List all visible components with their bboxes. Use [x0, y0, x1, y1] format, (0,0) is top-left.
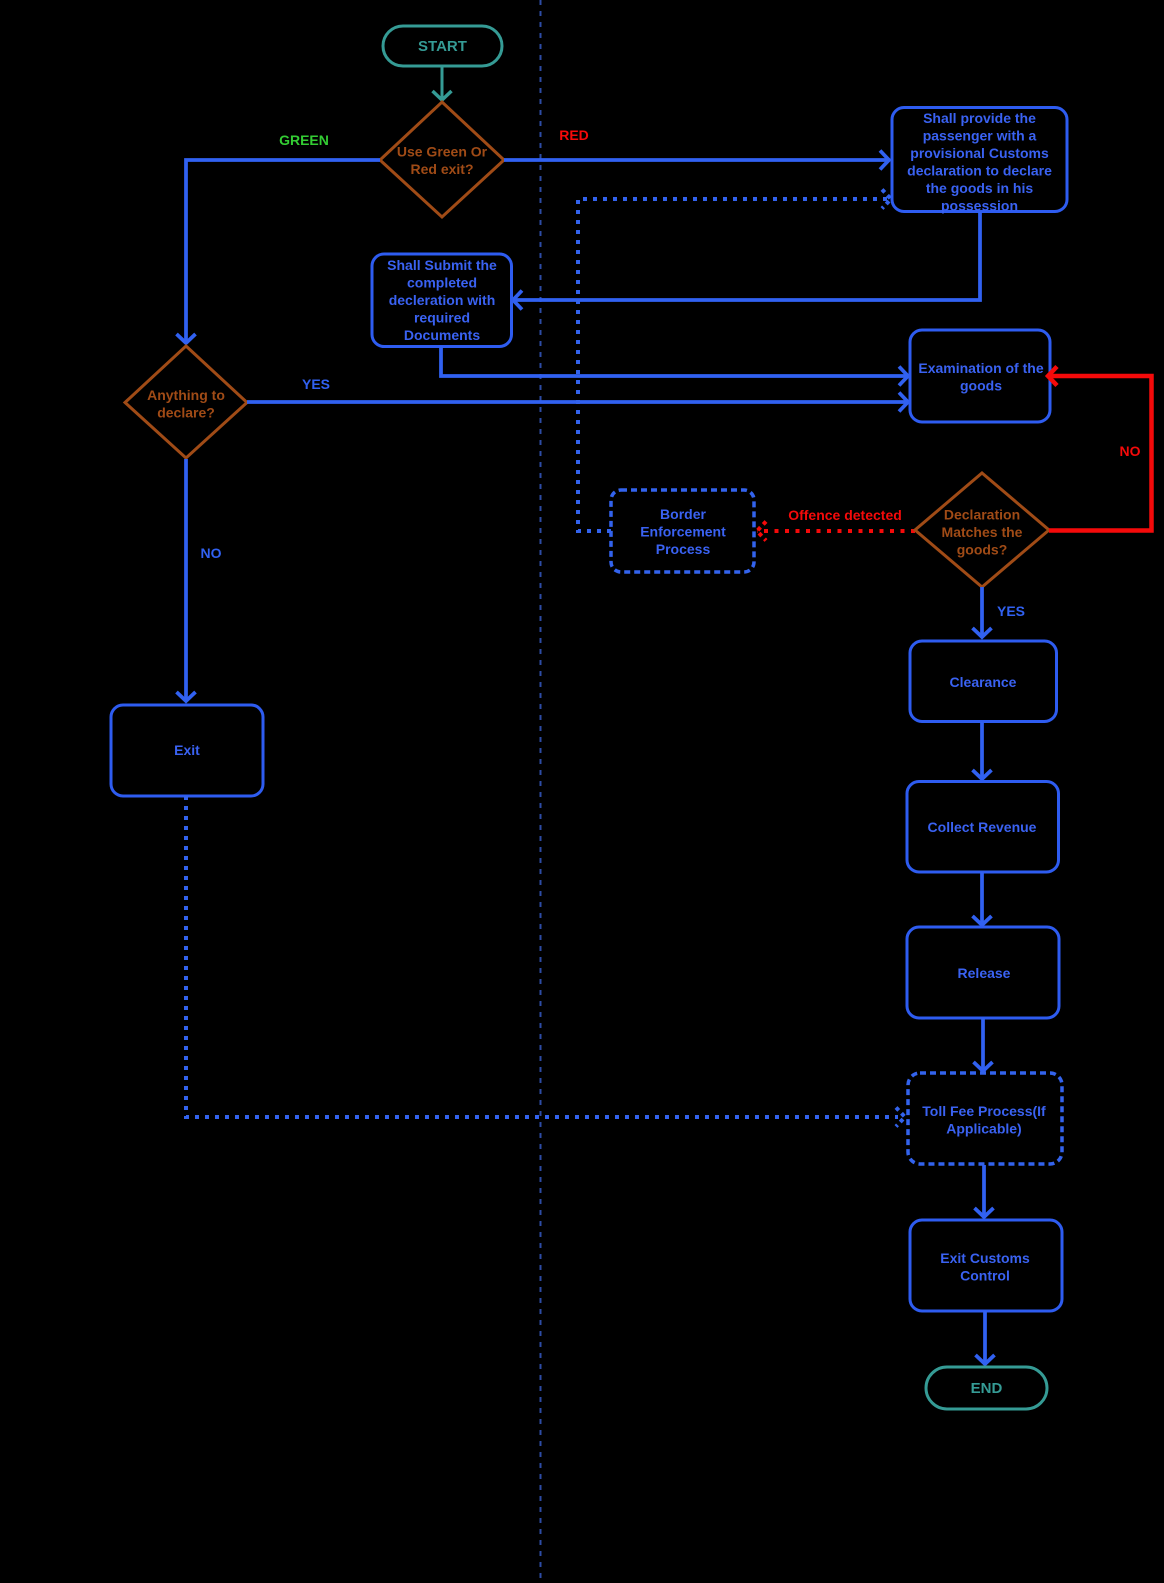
svg-text:Exit: Exit: [174, 742, 200, 758]
svg-text:Exit Customs: Exit Customs: [940, 1250, 1030, 1266]
svg-text:Shall provide the: Shall provide the: [923, 110, 1036, 126]
wire submit box to examination box: [441, 346, 908, 386]
wire Clearance to Collect Revenue: [973, 722, 992, 779]
svg-text:Matches the: Matches the: [942, 524, 1023, 540]
svg-text:NO: NO: [201, 545, 222, 561]
svg-text:required: required: [414, 310, 470, 326]
svg-text:Toll Fee Process(If: Toll Fee Process(If: [922, 1103, 1046, 1119]
svg-text:Shall Submit the: Shall Submit the: [387, 257, 497, 273]
decision D2 Anything to declare?: [125, 346, 247, 458]
process box: Exit Customs Control: [910, 1220, 1062, 1311]
decision D1 Use Green Or Red exit?: [380, 102, 504, 217]
svg-text:Offence detected: Offence detected: [788, 507, 902, 523]
red wire NO branch D3 to examination box: [1048, 367, 1152, 531]
wire D3 to Clearance: [973, 587, 992, 637]
svg-text:the goods in his: the goods in his: [926, 180, 1034, 196]
wire Exit Customs Control to END: [976, 1311, 995, 1364]
wire Collect Revenue to Release: [973, 872, 992, 925]
svg-text:Clearance: Clearance: [950, 674, 1017, 690]
svg-text:NO: NO: [1120, 443, 1141, 459]
svg-text:Control: Control: [960, 1268, 1010, 1284]
process box: Shall provide the passenger with a provisional Customs declaration: [892, 108, 1067, 214]
svg-text:Collect Revenue: Collect Revenue: [928, 819, 1037, 835]
wire START to D1: [433, 66, 452, 100]
dashed box: Border Enforcement Process: [611, 490, 754, 572]
dotted wire Border Enforcement back to provisional declaration box: [578, 190, 891, 532]
svg-text:declaration to declare: declaration to declare: [907, 163, 1052, 179]
process box: Release: [907, 927, 1059, 1018]
svg-text:decleration with: decleration with: [389, 292, 496, 308]
process box: Shall Submit the completed decleration: [372, 254, 512, 347]
red dotted wire D3 to Border Enforcement (Offence detected): [757, 522, 915, 541]
svg-text:Red exit?: Red exit?: [410, 161, 473, 177]
svg-text:goods?: goods?: [957, 542, 1008, 558]
svg-text:completed: completed: [407, 275, 477, 291]
svg-text:Applicable): Applicable): [946, 1121, 1021, 1137]
node END: [926, 1367, 1047, 1409]
svg-text:provisional Customs: provisional Customs: [910, 145, 1049, 161]
process box: Collect Revenue: [907, 782, 1059, 873]
svg-text:Border: Border: [660, 506, 706, 522]
svg-text:RED: RED: [559, 127, 589, 143]
wire YES branch D2 to examination box: [247, 393, 908, 412]
dotted wire Exit to Toll Fee Process: [186, 796, 905, 1127]
process box: Exit: [111, 705, 263, 796]
svg-text:possession: possession: [941, 198, 1018, 214]
svg-text:Enforcement: Enforcement: [640, 524, 726, 540]
svg-text:END: END: [971, 1380, 1003, 1397]
wire NO branch D2 to Exit: [177, 459, 196, 701]
svg-text:Declaration: Declaration: [944, 507, 1020, 523]
wire provisional box to submit box: [513, 212, 980, 310]
svg-text:Use Green Or: Use Green Or: [397, 144, 488, 160]
svg-text:Anything to: Anything to: [147, 387, 225, 403]
svg-text:YES: YES: [997, 603, 1025, 619]
svg-text:Documents: Documents: [404, 327, 480, 343]
svg-text:Release: Release: [958, 965, 1011, 981]
svg-text:Process: Process: [656, 541, 711, 557]
wire RED branch D1 to provisional declaration box: [504, 151, 889, 170]
node START: [383, 26, 502, 66]
svg-text:declare?: declare?: [157, 405, 215, 421]
process box: Clearance: [910, 641, 1057, 722]
svg-text:passenger with a: passenger with a: [923, 128, 1037, 144]
wire Toll Fee to Exit Customs Control: [975, 1165, 994, 1217]
lane separator line: [540, 0, 542, 1583]
svg-text:Examination of the: Examination of the: [918, 360, 1043, 376]
wire GREEN branch D1 to D2: [177, 160, 381, 343]
svg-text:START: START: [418, 38, 467, 55]
wire Release to Toll Fee Process: [974, 1018, 993, 1071]
svg-text:GREEN: GREEN: [279, 132, 329, 148]
decision D3 Declaration Matches the goods?: [915, 473, 1049, 587]
svg-text:goods: goods: [960, 378, 1002, 394]
process box: Examination of the goods: [910, 330, 1050, 422]
svg-text:YES: YES: [302, 376, 330, 392]
dashed box: Toll Fee Process(If Applicable): [908, 1073, 1062, 1164]
